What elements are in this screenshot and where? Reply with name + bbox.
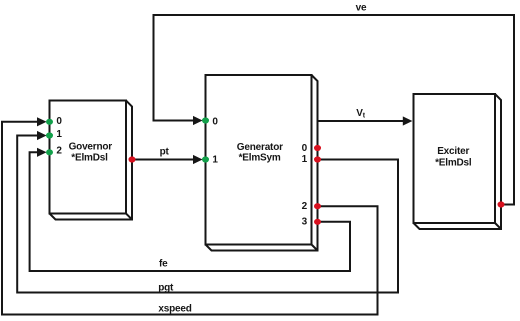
block Governor *ElmDsl [50,101,133,220]
pin Generator out 1 (red) [314,156,321,162]
block Exciter *ElmDsl [414,94,502,229]
wire pt (Governor out -> Generator in 1) [132,159,200,161]
svg-text:pgt: pgt [158,282,174,293]
pin Generator out 2 (red) [314,203,321,209]
svg-text:1: 1 [56,129,62,140]
wire pgt (Generator out 1 -> Governor in 1, around bottom) [17,136,398,293]
svg-text:*ElmDsl: *ElmDsl [435,157,472,168]
svg-text:pt: pt [160,146,170,157]
svg-text:fe: fe [159,259,168,270]
pin Governor in 0 (green) [46,119,53,125]
block Generator *ElmSym [206,75,318,251]
wire fe (Generator out 3 -> Governor in 2, around bottom) [30,152,350,271]
svg-text:2: 2 [56,145,62,156]
arrowhead xspeed into Governor pin 0 [37,117,47,126]
arrowhead fe into Governor pin 2 [37,148,47,157]
pin Exciter out ve (red) [498,201,505,207]
svg-text:2: 2 [302,201,308,212]
svg-text:0: 0 [56,116,62,127]
wire xspeed (Generator out 2 -> Governor in 0, around bottom) [2,122,378,315]
svg-text:Exciter: Exciter [437,146,469,157]
svg-text:xspeed: xspeed [158,304,191,315]
svg-text:*ElmDsl: *ElmDsl [71,153,108,164]
arrowhead pgt into Governor pin 1 [37,131,47,140]
svg-text:1: 1 [212,155,218,166]
svg-text:Governor: Governor [69,142,113,153]
pin Generator in 0 (green) [202,117,209,123]
svg-text:3: 3 [302,216,308,227]
svg-text:0: 0 [212,116,218,127]
arrowhead ve into Generator pin 0 [193,116,203,125]
pin Generator out 3 (red) [314,219,321,225]
wire Vt (Generator -> Exciter) [318,120,411,122]
wire ve (Exciter out -> Generator in 0, around top) [154,15,515,205]
arrowhead Vt into Exciter [403,116,413,125]
svg-text:0: 0 [302,143,308,154]
pin Generator in 1 (green) [202,156,209,162]
svg-text:1: 1 [302,154,308,165]
pin Governor in 1 (green) [46,132,53,138]
pin Generator out 0 (red) [314,145,321,151]
pin Governor in 2 (green) [46,149,53,155]
arrowhead pt into Generator pin 1 [193,155,203,164]
svg-text:ve: ve [356,3,367,14]
svg-text:*ElmSym: *ElmSym [239,153,281,164]
pin Governor out pt (red) [129,156,136,162]
